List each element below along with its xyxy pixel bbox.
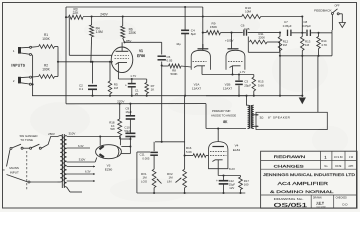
node HT/R3 tap xyxy=(65,16,67,18)
resistor R7 xyxy=(145,79,155,96)
resistor R3 xyxy=(66,8,83,20)
resistor R8 xyxy=(162,64,192,76)
speaker tap bottom xyxy=(252,125,259,127)
potentiometer RV1 xyxy=(141,169,162,193)
svg-text:3Ω: 3Ω xyxy=(260,115,265,119)
capacitor C12 xyxy=(216,176,235,194)
resistor R1 xyxy=(32,33,58,48)
label INPUTS xyxy=(11,64,25,68)
wire bottom ground bus xyxy=(137,192,245,194)
tube V1 EF86 xyxy=(111,42,133,72)
svg-text:+: + xyxy=(125,84,127,88)
wire HT secondary bottom xyxy=(67,158,97,163)
svg-text:~: ~ xyxy=(2,168,5,173)
svg-text:REDRAWN: REDRAWN xyxy=(274,155,307,159)
switch mains xyxy=(7,144,42,166)
svg-text:6.3V: 6.3V xyxy=(85,169,91,173)
svg-text:EL84: EL84 xyxy=(233,148,241,152)
svg-text:1K: 1K xyxy=(151,87,155,91)
svg-text:LOG: LOG xyxy=(141,179,148,183)
resistor R12 xyxy=(278,33,288,56)
resistor R14 xyxy=(317,32,328,56)
wire V1 anode xyxy=(123,41,161,43)
transformer T1 core xyxy=(62,134,64,188)
node rail R4 xyxy=(91,15,93,17)
title block grid xyxy=(261,151,357,208)
resistor R13 xyxy=(301,33,311,56)
switch feedback xyxy=(331,4,340,33)
svg-text:8K: 8K xyxy=(223,120,228,124)
wire HT lower rail xyxy=(66,100,206,104)
svg-text:FEEDBACK: FEEDBACK xyxy=(314,9,332,13)
svg-text:0.05: 0.05 xyxy=(167,59,173,63)
mains ac symbol xyxy=(2,168,5,173)
transformer OT core xyxy=(250,105,252,129)
wire grid line xyxy=(58,61,113,63)
svg-text:16µ: 16µ xyxy=(176,42,181,46)
wire osc ground drop B xyxy=(301,56,303,97)
wire V4 anode xyxy=(217,127,219,141)
resistor R5 xyxy=(108,61,118,96)
capacitor C10 xyxy=(124,125,135,136)
svg-text:DRAWING No.: DRAWING No. xyxy=(274,197,304,201)
title AC4 xyxy=(278,181,329,186)
wire input mix bar xyxy=(57,47,59,77)
capacitor C3 xyxy=(235,75,251,96)
svg-text:0.005: 0.005 xyxy=(142,156,149,160)
svg-text:0.05µF: 0.05µF xyxy=(283,24,292,28)
resistor R2 xyxy=(32,64,58,79)
svg-text:APP.: APP. xyxy=(348,165,353,168)
svg-text:0.05: 0.05 xyxy=(244,27,250,31)
wire V4 cathode xyxy=(218,169,240,177)
svg-text:JENNINGS MUSICAL INDUSTRIES LT: JENNINGS MUSICAL INDUSTRIES LTD xyxy=(263,173,356,177)
svg-text:25µF: 25µF xyxy=(244,83,251,87)
svg-text:6.3V: 6.3V xyxy=(78,144,84,148)
label 310V top xyxy=(69,132,76,136)
transformer T1 primary xyxy=(58,136,63,183)
svg-text:150K: 150K xyxy=(210,25,218,29)
svg-text:50µF: 50µF xyxy=(124,129,131,133)
svg-text:160: 160 xyxy=(244,182,249,186)
label 8.2V xyxy=(229,167,235,171)
svg-text:No.: No. xyxy=(324,165,328,168)
svg-text:OS/051: OS/051 xyxy=(274,203,308,209)
resistor R6 xyxy=(121,17,137,43)
svg-text:12AX7: 12AX7 xyxy=(192,87,202,91)
label +85V xyxy=(126,39,131,43)
label V2A xyxy=(192,82,202,90)
resistor R17 xyxy=(239,176,250,194)
svg-text:PRIMARY IMP.: PRIMARY IMP. xyxy=(212,109,231,113)
wire volume feed drop xyxy=(161,66,163,142)
node C9 tap xyxy=(129,103,131,105)
speaker box xyxy=(256,112,327,129)
svg-text:5.6K: 5.6K xyxy=(258,83,264,87)
wire ground bus xyxy=(32,95,302,97)
node C7 branch xyxy=(279,32,281,34)
svg-text:1M: 1M xyxy=(305,43,310,47)
svg-text:+105V: +105V xyxy=(225,39,234,43)
svg-text:500K: 500K xyxy=(170,72,177,76)
capacitor C6 xyxy=(232,24,281,36)
potentiometer RV2 xyxy=(167,169,187,193)
svg-text:10M: 10M xyxy=(245,10,251,14)
capacitor C4 xyxy=(181,7,196,96)
wire HT secondary top xyxy=(67,135,121,145)
switch gang dashed link xyxy=(26,151,28,190)
svg-text:INPUT: INPUT xyxy=(10,170,19,174)
label MAINS INPUT xyxy=(9,166,19,174)
svg-text:310V: 310V xyxy=(69,132,76,136)
wire screen feed xyxy=(69,17,111,55)
title row changes xyxy=(274,164,354,168)
label FEEDBACK xyxy=(314,9,332,13)
tube V2A xyxy=(191,44,210,70)
label V3 EZ80 xyxy=(105,163,113,171)
wire mains to primary xyxy=(41,132,57,148)
svg-text:CHECKED: CHECKED xyxy=(336,198,348,200)
transformer T1 secondary xyxy=(64,136,67,187)
label V4 EL84 xyxy=(233,144,241,152)
svg-text:250V: 250V xyxy=(48,132,55,136)
wire jack grounds xyxy=(31,55,33,96)
input jack 1 xyxy=(13,46,32,55)
svg-text:12V: 12V xyxy=(229,186,234,190)
svg-text:4.7K: 4.7K xyxy=(321,43,327,47)
wire HT left drop xyxy=(65,7,67,104)
title checked cell xyxy=(336,198,349,207)
svg-text:220K: 220K xyxy=(259,35,266,39)
svg-text:1: 1 xyxy=(325,155,327,159)
wire feedback line xyxy=(317,56,319,113)
wire mains lower xyxy=(7,175,58,184)
svg-text:OFF: OFF xyxy=(335,4,340,7)
wire HT top line xyxy=(66,6,203,8)
title company xyxy=(263,173,356,177)
label SW GANGED xyxy=(20,134,38,142)
svg-text:0.1: 0.1 xyxy=(79,87,84,91)
svg-text:1.7V: 1.7V xyxy=(240,70,246,74)
tube V2B xyxy=(226,33,245,70)
svg-text:100K: 100K xyxy=(42,37,50,41)
svg-text:LIN: LIN xyxy=(167,179,172,183)
svg-text:V1: V1 xyxy=(139,49,143,53)
node rail V2 anode feed xyxy=(202,15,204,17)
capacitor C7 xyxy=(283,20,292,36)
wire ground bus right xyxy=(206,95,247,97)
capacitor C2 xyxy=(79,61,97,96)
input jack 2 xyxy=(13,76,32,85)
capacitor C11 xyxy=(140,142,158,169)
wire V2 cathodes xyxy=(202,66,254,76)
svg-text:0.05µF: 0.05µF xyxy=(302,24,311,28)
svg-text:1M: 1M xyxy=(283,43,288,47)
svg-text:J.E.T: J.E.T xyxy=(316,202,324,206)
svg-text:AC4 AMPLIFIER: AC4 AMPLIFIER xyxy=(278,181,329,186)
svg-text:TO TONE: TO TONE xyxy=(20,138,33,142)
svg-text:310V: 310V xyxy=(79,158,86,162)
node C7-C8 xyxy=(301,32,303,34)
svg-text:+: + xyxy=(216,179,218,183)
wire rail to C7C8 xyxy=(261,15,304,32)
svg-text:22K: 22K xyxy=(73,11,80,15)
node R18 tap xyxy=(119,103,121,105)
label V2B xyxy=(223,82,233,90)
label primary imp xyxy=(211,109,236,124)
title domino xyxy=(270,190,334,194)
wire 240V rail xyxy=(83,12,242,16)
svg-text:8" SPEAKER: 8" SPEAKER xyxy=(268,116,291,120)
resistor R4 xyxy=(90,17,103,63)
svg-text:J.W: J.W xyxy=(349,156,354,159)
transformer OT primary xyxy=(248,105,250,128)
heater tap 1 xyxy=(67,166,95,168)
node C4 ground xyxy=(184,95,186,97)
label vib xyxy=(176,42,181,46)
svg-text:220K: 220K xyxy=(129,31,137,35)
wire V1 cathode xyxy=(118,72,146,80)
svg-text:D.D: D.D xyxy=(342,203,348,207)
svg-text:1.5M: 1.5M xyxy=(96,30,103,34)
svg-text:EF86: EF86 xyxy=(137,54,145,58)
ground feedback switch xyxy=(339,14,345,28)
wire secondary bottom tap xyxy=(67,187,82,192)
svg-text:8µF: 8µF xyxy=(191,32,197,36)
node rail R6 xyxy=(122,15,124,17)
title drawing no xyxy=(274,197,308,209)
tube V3 EZ80 xyxy=(96,145,122,159)
svg-text:5W: 5W xyxy=(110,127,115,131)
capacitor C8 xyxy=(292,20,332,36)
svg-text:100K: 100K xyxy=(42,67,50,71)
capacitor C5 xyxy=(158,42,173,65)
heater tap 2 xyxy=(67,169,95,175)
svg-text:16·9·60: 16·9·60 xyxy=(334,156,343,159)
svg-text:EZ80: EZ80 xyxy=(105,168,113,172)
svg-text:5.6K: 5.6K xyxy=(186,150,192,154)
resistor R18 xyxy=(109,104,122,139)
svg-text:240V: 240V xyxy=(100,12,108,16)
speaker tap top xyxy=(252,114,259,116)
node C4 top xyxy=(184,6,186,8)
wire OT top xyxy=(245,95,247,106)
svg-text:OCT 1959: OCT 1959 xyxy=(316,206,326,208)
wire oscillator bus xyxy=(279,33,332,57)
wire left pot branch xyxy=(137,152,150,193)
wire heater rectifier xyxy=(67,144,90,148)
title row redrawn xyxy=(274,155,354,159)
svg-text:1M: 1M xyxy=(114,86,119,90)
resistor R16 xyxy=(185,146,209,157)
wire HT to OT xyxy=(206,104,246,129)
svg-text:ANODE TO ANODE: ANODE TO ANODE xyxy=(211,113,236,117)
wire osc ground drop A xyxy=(279,56,281,97)
svg-text:& DOMINO NORMAL: & DOMINO NORMAL xyxy=(270,190,334,194)
transformer OT secondary xyxy=(252,105,254,128)
resistor R9 xyxy=(203,21,233,34)
svg-text:16µF: 16µF xyxy=(125,110,132,114)
node C5 out xyxy=(161,64,163,66)
wire tone line xyxy=(155,141,185,143)
heater tap 3 xyxy=(67,180,95,182)
capacitor C1 xyxy=(125,79,139,96)
svg-text:1: 1 xyxy=(13,49,15,53)
svg-text:270V: 270V xyxy=(117,100,125,104)
wire vib feed drop xyxy=(184,96,186,170)
resistor R11 network xyxy=(248,32,279,52)
ground chassis arrow xyxy=(299,95,306,105)
capacitor C9 xyxy=(125,104,135,133)
label +105V xyxy=(225,39,234,43)
svg-text:1.7V: 1.7V xyxy=(130,74,136,78)
label V1 EF86 xyxy=(137,49,145,58)
resistor R10 xyxy=(242,6,261,19)
svg-text:DATE: DATE xyxy=(335,165,342,168)
svg-text:8.2V: 8.2V xyxy=(229,167,235,171)
tube V4 EL84 xyxy=(209,142,228,169)
wire V2 anode feed xyxy=(202,7,204,49)
svg-text:12AX7: 12AX7 xyxy=(223,87,233,91)
svg-text:INPUTS: INPUTS xyxy=(11,64,25,68)
resistor R15 xyxy=(252,75,264,96)
wire rectifier node xyxy=(120,137,132,154)
svg-text:CHANGES: CHANGES xyxy=(274,164,305,168)
title drawn cell xyxy=(313,197,326,209)
svg-text:2: 2 xyxy=(13,79,15,83)
label speaker xyxy=(260,115,291,119)
svg-text:DRAWN: DRAWN xyxy=(313,197,322,200)
